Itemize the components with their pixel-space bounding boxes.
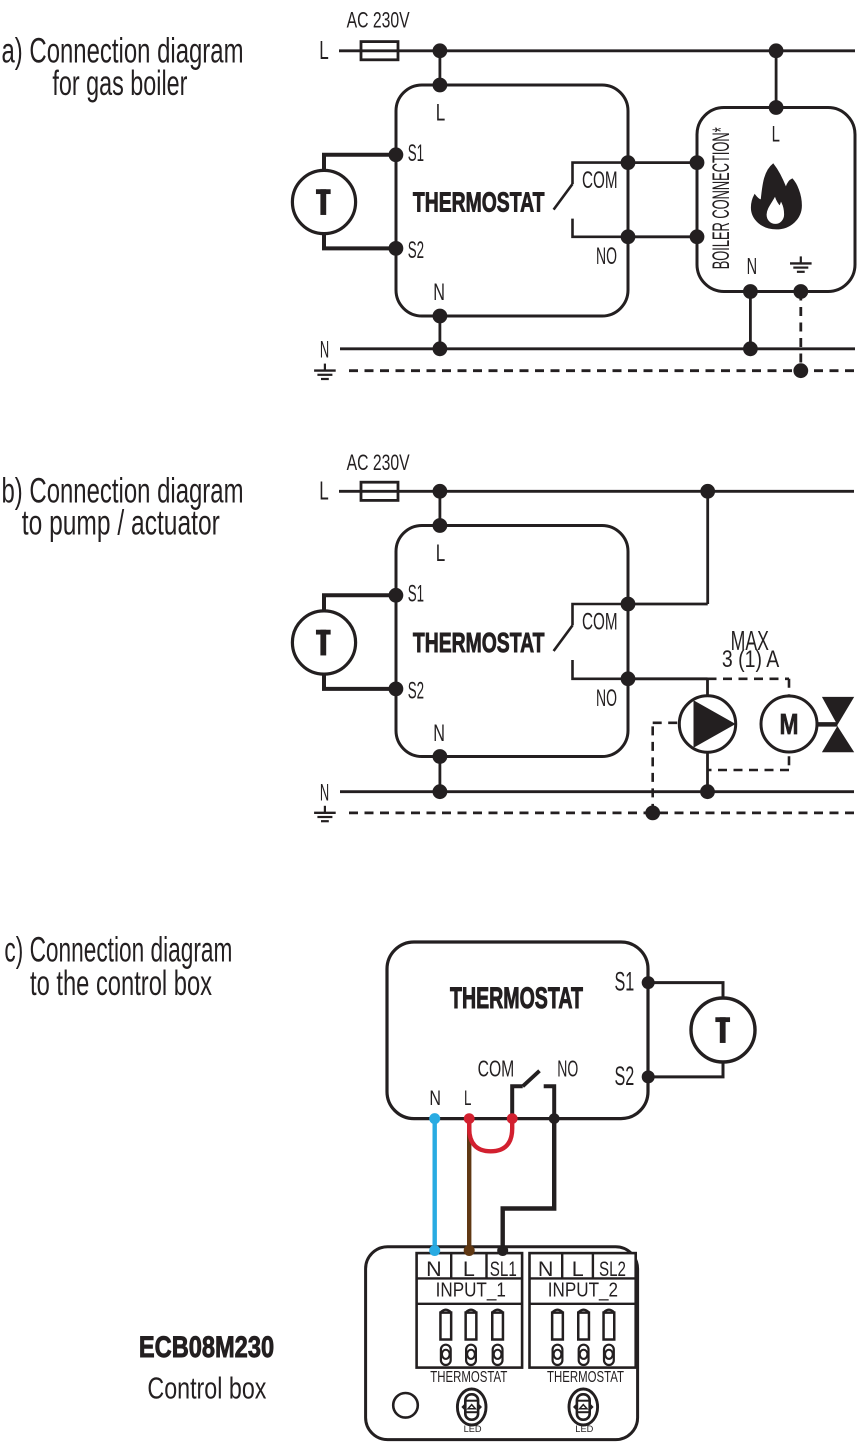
- sensor loop wire S2 (b): [324, 674, 396, 689]
- svg-text:THERMOSTAT: THERMOSTAT: [547, 1369, 624, 1386]
- svg-text:LED: LED: [575, 1424, 594, 1434]
- svg-text:N: N: [429, 1087, 441, 1110]
- earth symbol in boiler (a): [800, 256, 802, 262]
- pin dot N bottom thermostat (a): [433, 309, 448, 324]
- fuse F2 (b): [361, 482, 398, 500]
- valve V1 (b): [822, 697, 854, 725]
- svg-text:THERMOSTAT: THERMOSTAT: [450, 982, 583, 1015]
- dashed rating box bottom (b): [708, 769, 789, 772]
- dot NO (c): [549, 1113, 560, 1124]
- earth symbol margin (a): [324, 364, 326, 370]
- temperature sensor T1 (a): [292, 170, 355, 233]
- wire L to fuse (a): [339, 49, 361, 52]
- terminal slots (block2): [552, 1313, 563, 1340]
- wire boiler N down (a): [749, 292, 752, 349]
- thermostat U1 box (a): [396, 85, 628, 316]
- svg-text:L: L: [319, 475, 329, 505]
- junction dot COM riser (b): [700, 484, 715, 499]
- dot SL1 control box (c): [497, 1245, 508, 1256]
- pin dot NO (a): [621, 229, 636, 244]
- terminal block2 cell dividers: [561, 1253, 563, 1278]
- svg-text:N: N: [433, 279, 445, 306]
- junction dot L/thermostat (b): [433, 484, 448, 499]
- svg-text:S1: S1: [615, 967, 635, 997]
- pin dot S1 (c): [642, 976, 655, 989]
- dashed earth link vertical (b): [651, 723, 654, 813]
- junction dot N pump (b): [700, 784, 715, 799]
- wire N bus (a): [340, 347, 855, 350]
- wire thermostat N down (b): [438, 757, 441, 792]
- junction dot boiler L drop (a): [769, 43, 784, 58]
- svg-text:AC 230V: AC 230V: [347, 8, 410, 33]
- pin dot S1 (b): [389, 588, 404, 603]
- relay switch SW1 (a): [573, 163, 629, 184]
- dashed wire boiler earth down (a): [799, 292, 802, 371]
- svg-text:SL2: SL2: [599, 1257, 626, 1281]
- svg-text:THERMOSTAT: THERMOSTAT: [413, 627, 545, 658]
- svg-text:THERMOSTAT: THERMOSTAT: [413, 187, 545, 218]
- terminal block INPUT_2 frame: [530, 1253, 636, 1368]
- pin dot COM (b): [621, 597, 636, 612]
- wire thermostat N down (a): [438, 316, 441, 349]
- wire NO to boiler (a): [628, 235, 697, 238]
- junction dot N boiler (a): [743, 341, 758, 356]
- pin dot S2 (a): [389, 241, 404, 256]
- relay switch SW3 (c): [512, 1086, 523, 1118]
- wire drop to boiler L pin (a): [775, 51, 778, 108]
- svg-text:L: L: [464, 1087, 471, 1110]
- pin dot L on thermostat top (a): [433, 78, 448, 93]
- svg-text:N: N: [433, 720, 445, 747]
- svg-text:N: N: [320, 780, 329, 807]
- dashed earth bus (b): [349, 812, 855, 815]
- earth symbol margin (b): [324, 806, 326, 812]
- relay switch SW2 (b): [573, 604, 629, 625]
- terminal slots (block1): [440, 1313, 451, 1340]
- dot COM red jumper right (c): [507, 1113, 518, 1124]
- svg-text:N: N: [426, 1257, 442, 1281]
- LED indicator 1: [457, 1389, 486, 1425]
- thermostat U3 box (b): [396, 526, 628, 757]
- wire COM to boiler (a): [628, 161, 697, 164]
- wire N bus (b): [340, 790, 854, 793]
- svg-text:COM: COM: [582, 608, 618, 635]
- svg-text:N: N: [747, 253, 758, 279]
- motor M1 (b): [761, 696, 817, 752]
- pin dot L on thermostat top (b): [433, 518, 448, 533]
- pin dot N bottom thermostat (b): [433, 749, 448, 764]
- terminal block2 row lines: [530, 1277, 636, 1279]
- control box ECB08M230 outline: [366, 1247, 638, 1440]
- junction dot earth boiler (a): [793, 363, 808, 378]
- svg-text:S1: S1: [408, 581, 424, 608]
- red jumper wire L-COM (c): [469, 1119, 512, 1152]
- svg-text:L: L: [436, 100, 446, 127]
- wire L bus top (b): [398, 490, 854, 493]
- svg-text:COM: COM: [582, 167, 618, 194]
- svg-text:3 (1) A: 3 (1) A: [722, 646, 779, 673]
- svg-text:to pump / actuator: to pump / actuator: [22, 503, 220, 543]
- flame icon (a): [751, 164, 801, 229]
- wire L to fuse (b): [339, 490, 361, 493]
- svg-text:L: L: [772, 121, 780, 146]
- svg-text:LED: LED: [464, 1424, 483, 1434]
- dot L red jumper left (c): [464, 1113, 475, 1124]
- wire COM riser (b): [706, 491, 709, 604]
- svg-text:S1: S1: [408, 140, 424, 167]
- svg-text:N: N: [320, 337, 329, 364]
- sensor loop wire S2 (a): [324, 234, 396, 249]
- dot L control box (c): [464, 1245, 475, 1256]
- wire COM right (b): [628, 603, 708, 606]
- svg-text:L: L: [319, 35, 329, 65]
- svg-text:NO: NO: [596, 243, 617, 270]
- wire drop to thermostat L pin (a): [438, 51, 441, 85]
- terminal screws (block2): [553, 1345, 563, 1365]
- brown live wire L (c): [467, 1119, 471, 1251]
- wire motor to valve (b): [817, 722, 838, 727]
- svg-text:NO: NO: [596, 685, 617, 712]
- black wire NO to SL1 (c): [503, 1119, 555, 1251]
- wire NO to pump (b): [706, 679, 709, 792]
- boiler box U2 (a): [697, 108, 855, 292]
- temperature sensor T3 (c): [691, 998, 755, 1062]
- pin dot S2 (c): [642, 1070, 655, 1083]
- pin dot NO (b): [621, 671, 636, 686]
- svg-text:Control box: Control box: [147, 1370, 266, 1405]
- svg-text:INPUT_2: INPUT_2: [548, 1280, 618, 1302]
- svg-text:AC 230V: AC 230V: [347, 450, 410, 475]
- svg-text:SL1: SL1: [490, 1257, 517, 1281]
- pin dot boiler N (a): [743, 284, 758, 299]
- svg-text:COM: COM: [478, 1056, 515, 1082]
- svg-text:S2: S2: [408, 237, 424, 264]
- pin dot boiler L top (a): [769, 100, 784, 115]
- button circle (control box): [393, 1393, 418, 1418]
- svg-text:NO: NO: [557, 1056, 578, 1082]
- pin dot S2 (b): [389, 682, 404, 697]
- wire drop to thermostat L pin (b): [438, 491, 441, 525]
- dashed earth bus (a): [349, 369, 855, 372]
- sensor loop wire S1 (b): [324, 595, 396, 611]
- pin dot boiler lower (a): [690, 229, 705, 244]
- sensor loop wire S1 (c): [648, 983, 723, 998]
- junction dot earth link (b): [645, 806, 660, 821]
- junction dot L/thermostat (a): [433, 43, 448, 58]
- terminal screws (block1): [441, 1345, 451, 1365]
- pin dot boiler upper (a): [690, 155, 705, 170]
- pump P1 (b): [679, 696, 735, 752]
- terminal block1 cell dividers: [450, 1253, 452, 1278]
- wire through fuse (a): [361, 49, 398, 52]
- svg-text:S2: S2: [408, 677, 424, 704]
- fuse F1 (a): [361, 42, 398, 60]
- wire through fuse (b): [361, 490, 398, 493]
- pin dot COM (a): [621, 155, 636, 170]
- svg-text:M: M: [780, 709, 799, 741]
- svg-text:to the control box: to the control box: [30, 963, 212, 1003]
- junction dot N thermostat (b): [433, 784, 448, 799]
- wire L bus top (a): [398, 49, 855, 52]
- dashed rating box right (b): [788, 679, 791, 770]
- dashed rating box top (b): [708, 677, 790, 680]
- svg-text:INPUT_1: INPUT_1: [436, 1280, 506, 1302]
- thermostat U4 box (c): [387, 942, 648, 1119]
- pin dot boiler earth (a): [793, 284, 808, 299]
- sensor loop wire S1 (a): [324, 155, 396, 171]
- svg-text:L: L: [572, 1257, 584, 1281]
- dot N terminal top (c): [429, 1113, 440, 1124]
- blue neutral wire N (c): [433, 1119, 437, 1251]
- pin dot S1 (a): [389, 147, 404, 162]
- sensor loop wire S2 (c): [648, 1062, 723, 1077]
- svg-text:L: L: [463, 1257, 475, 1281]
- LED indicator 2: [569, 1389, 598, 1425]
- svg-text:THERMOSTAT: THERMOSTAT: [430, 1369, 507, 1386]
- dot N control box (c): [429, 1245, 440, 1256]
- temperature sensor T2 (b): [292, 611, 355, 674]
- svg-text:BOILER CONNECTION*: BOILER CONNECTION*: [709, 127, 735, 269]
- svg-text:ECB08M230: ECB08M230: [139, 1331, 274, 1364]
- terminal block1 row lines: [417, 1277, 522, 1279]
- svg-text:L: L: [436, 540, 446, 567]
- dashed earth link horizontal (b): [653, 721, 680, 724]
- svg-text:S2: S2: [615, 1061, 635, 1091]
- wire NO right (b): [628, 677, 708, 680]
- terminal block INPUT_1 frame: [417, 1253, 522, 1368]
- junction dot N thermostat (a): [433, 341, 448, 356]
- svg-text:N: N: [538, 1257, 554, 1281]
- svg-text:for gas boiler: for gas boiler: [52, 63, 187, 103]
